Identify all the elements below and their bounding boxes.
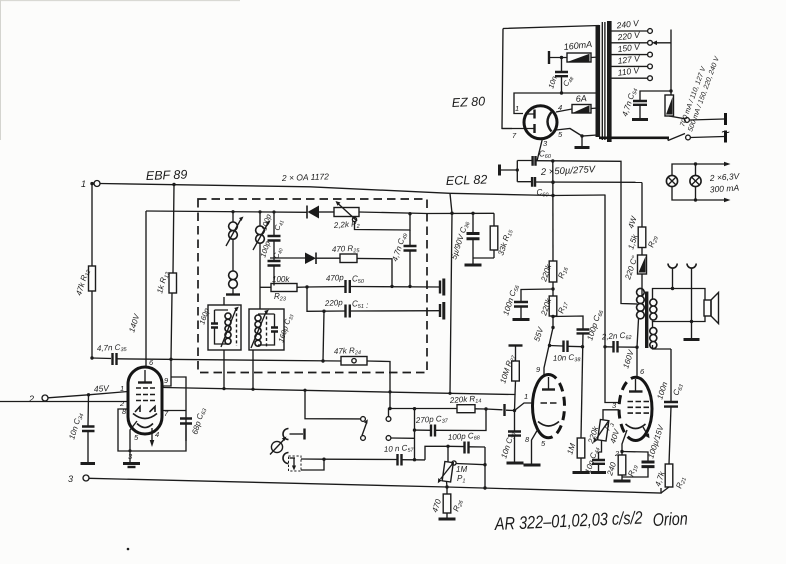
wire to C56 bbox=[521, 289, 553, 301]
ground EBF89 cathode bbox=[123, 462, 140, 465]
ground R19 bbox=[614, 480, 631, 483]
tube ECL82 triode envelope bbox=[533, 375, 549, 438]
EBF89 heater arc bbox=[137, 424, 153, 428]
svg-text:R29: R29 bbox=[646, 235, 660, 250]
ground 1M bbox=[573, 471, 590, 474]
pentode grids bbox=[628, 402, 650, 414]
chassis plate C50 right bbox=[439, 281, 441, 294]
svg-text:2 ×6,3V: 2 ×6,3V bbox=[708, 171, 740, 183]
tuned circuit box B bbox=[249, 309, 284, 389]
EZ80 pin3 wire down bbox=[537, 139, 543, 161]
node B+ lower rail x553 bbox=[551, 181, 554, 184]
wire R13 bottom to EBF89 pin9 bbox=[162, 359, 186, 441]
chassis plate C60 bbox=[498, 165, 501, 176]
capacitor C44 10n bbox=[583, 446, 605, 475]
node P1 bottom on line3 bbox=[445, 485, 448, 488]
node jack wire bbox=[322, 458, 325, 461]
svg-text:4,7n C35: 4,7n C35 bbox=[97, 342, 128, 354]
wire terminal2 to EBF89 grid pin1 bbox=[48, 392, 128, 398]
capacitor 100u/15V electrolytic bbox=[622, 423, 666, 477]
capacitor C66 100p bbox=[577, 308, 606, 438]
wire C50 line bbox=[297, 286, 440, 289]
wire switch left feed bbox=[305, 390, 361, 419]
svg-text:9: 9 bbox=[164, 376, 169, 385]
svg-text:R23: R23 bbox=[274, 292, 287, 303]
svg-text:45V: 45V bbox=[93, 383, 110, 394]
svg-text:68p C63: 68p C63 bbox=[190, 406, 208, 436]
ground C34 bbox=[81, 462, 96, 465]
node C50 left bbox=[305, 285, 308, 288]
wire screen rail x605 bbox=[605, 195, 619, 403]
svg-text:8: 8 bbox=[525, 435, 530, 444]
resistor 1M triode cathode bbox=[565, 438, 584, 471]
svg-text:2: 2 bbox=[28, 394, 34, 404]
svg-text:ECL 82: ECL 82 bbox=[446, 173, 488, 188]
VDR 220C bbox=[623, 254, 646, 296]
svg-text:2: 2 bbox=[614, 449, 620, 458]
EZ80 plates bbox=[533, 110, 535, 134]
wire detector top line to C36 node bbox=[359, 212, 494, 214]
triode cathode arc bbox=[538, 422, 559, 427]
node R12 bottom / C35 line bbox=[90, 356, 93, 359]
mains fuse bbox=[665, 95, 674, 116]
wire C51 line bbox=[307, 287, 440, 311]
svg-text:100n: 100n bbox=[655, 380, 669, 400]
wire C37/C57 vertical bbox=[414, 409, 416, 460]
capacitor C41 100p bbox=[259, 212, 285, 240]
ground R26 bbox=[439, 518, 456, 521]
node grid junction bbox=[513, 409, 516, 412]
triode pin 1 wire bbox=[515, 403, 533, 411]
svg-text:R26: R26 bbox=[451, 498, 465, 513]
triode grid bbox=[541, 402, 557, 404]
resistor R24 47k preset bbox=[334, 346, 367, 365]
capacitor C54 4.7n bbox=[620, 87, 671, 118]
ground C56 bbox=[513, 318, 530, 321]
EBF89 cathode arc bbox=[133, 414, 157, 419]
mains switch pole 1 bbox=[669, 116, 685, 119]
EZ80 pin4 wire to 6A fuse bbox=[556, 109, 572, 112]
capacitor C60a 2x50u electrolytic bbox=[533, 150, 552, 166]
svg-text:Orion: Orion bbox=[652, 508, 688, 530]
node R14 right bbox=[484, 407, 487, 410]
terminal 1 bbox=[81, 179, 100, 189]
diode D1 OA1172 bbox=[307, 206, 334, 219]
node C38 tap bbox=[548, 344, 551, 347]
svg-text:100n C56: 100n C56 bbox=[501, 283, 521, 317]
headphone jack 1 bbox=[668, 264, 677, 269]
svg-text:160mA: 160mA bbox=[563, 39, 592, 52]
wire R14 to C37 bbox=[436, 409, 486, 431]
node slant line top bbox=[450, 212, 453, 215]
svg-text:160p: 160p bbox=[197, 307, 211, 326]
node B+ x553 bbox=[551, 194, 554, 197]
svg-text:10n: 10n bbox=[546, 75, 558, 90]
ground speaker line bbox=[691, 322, 693, 339]
fuse 6A bbox=[572, 93, 598, 113]
resistor R14 220k bbox=[449, 394, 486, 413]
svg-text:7: 7 bbox=[512, 131, 517, 140]
node AVC x450 bbox=[448, 392, 451, 395]
node C49 bottom bbox=[408, 285, 411, 288]
svg-text:5: 5 bbox=[134, 433, 139, 442]
capacitor C38 10n bbox=[550, 341, 583, 365]
wire rail to lamps line y183 bbox=[535, 181, 642, 183]
capacitor C35 4.7n bbox=[97, 342, 128, 365]
svg-text:220 V: 220 V bbox=[616, 29, 642, 42]
node wiper line bbox=[483, 463, 486, 466]
resistor R26 470 bbox=[430, 487, 465, 518]
IF coil L3 small bbox=[229, 271, 238, 294]
wire slantline down to AVC bbox=[450, 194, 452, 394]
capacitor C62 2.2n bbox=[601, 330, 637, 352]
coil box B bbox=[251, 310, 269, 348]
tap terminal circles bbox=[648, 29, 653, 34]
page edge marks bbox=[0, 0, 240, 140]
ground C44 bbox=[591, 471, 606, 474]
wire C68 right down bbox=[484, 447, 486, 488]
svg-text:2,2n C62: 2,2n C62 bbox=[601, 330, 632, 343]
mains cord wires bbox=[690, 119, 725, 138]
wire to triode pin9 bbox=[544, 328, 553, 378]
svg-text:4W: 4W bbox=[626, 214, 639, 230]
svg-text:220k: 220k bbox=[539, 262, 554, 283]
wire step up to C68 line bbox=[425, 446, 448, 460]
wire pin2 line bbox=[0, 401, 128, 403]
dashed shield box bbox=[198, 199, 427, 373]
node AVC x305 bbox=[303, 389, 306, 392]
node switch/R24 bbox=[388, 407, 391, 410]
svg-text:C51 :: C51 : bbox=[352, 300, 368, 311]
ground C39 bbox=[507, 462, 524, 465]
node lamp2 bottom bbox=[694, 198, 697, 201]
ground pin5 bbox=[581, 136, 583, 146]
IF coil L2 bbox=[253, 212, 271, 309]
svg-text:2 ×50µ/275V: 2 ×50µ/275V bbox=[540, 164, 597, 178]
svg-text:EBF 89: EBF 89 bbox=[146, 168, 188, 183]
svg-text:C60: C60 bbox=[539, 150, 552, 161]
wire secondary loop to speaker bbox=[653, 289, 706, 322]
wire switch lower right stub bbox=[391, 437, 415, 439]
capacitor C39 10n grid bbox=[499, 411, 521, 463]
svg-text:4,7n C54: 4,7n C54 bbox=[620, 87, 639, 118]
transformer core gap lines bbox=[602, 22, 605, 140]
svg-text:R21: R21 bbox=[674, 476, 688, 491]
wire B+ top rail to output transformer bbox=[536, 161, 638, 304]
wire B+ rail y193 bbox=[450, 193, 605, 195]
resistor R12 47k bbox=[74, 184, 95, 358]
EBF89 anode bbox=[138, 381, 152, 383]
terminal 2 bbox=[28, 394, 48, 404]
secondary lower winding bbox=[650, 328, 657, 349]
node pin6 / C62 bbox=[635, 346, 638, 349]
pentode pin 3 wire bbox=[603, 410, 619, 420]
capacitor C49 4.7n bbox=[390, 230, 416, 286]
grid stopper plate fuse left bbox=[548, 51, 550, 64]
svg-text:EZ 80: EZ 80 bbox=[451, 94, 485, 110]
node C36 top bbox=[471, 212, 474, 215]
node C54 tap bbox=[669, 89, 672, 92]
ground L3 bbox=[226, 293, 240, 295]
capacitor C40 100p bbox=[258, 240, 284, 286]
node C51/R24 branch bbox=[322, 310, 325, 313]
capacitor C36 5u/90V electrolytic bbox=[449, 213, 479, 261]
wire pin6 up to output transformer bbox=[637, 319, 639, 377]
EZ80 cathode arc bbox=[548, 112, 552, 132]
node cathode bbox=[620, 450, 623, 453]
secondary upper winding bbox=[650, 299, 657, 320]
triode anode bbox=[542, 388, 555, 390]
node AVC x253 bbox=[251, 388, 254, 391]
svg-text:3: 3 bbox=[543, 139, 548, 148]
svg-text:55V: 55V bbox=[532, 326, 545, 343]
capacitor box B 160p C33 bbox=[271, 328, 278, 332]
wire terminal3 chassis line bbox=[89, 478, 661, 493]
fuse 160mA bbox=[563, 39, 599, 62]
pentode anode bbox=[629, 390, 643, 392]
svg-text:47k R24: 47k R24 bbox=[334, 346, 362, 358]
node R12 top bbox=[90, 182, 93, 185]
svg-text:~: ~ bbox=[721, 124, 730, 141]
wire down to R24 line bbox=[323, 311, 324, 361]
svg-text:33k R15: 33k R15 bbox=[496, 227, 515, 257]
capacitor C37 270p bbox=[415, 414, 450, 437]
wire shield box bottom bbox=[118, 409, 186, 451]
potentiometer P3 220k bbox=[586, 419, 617, 452]
svg-text:100p: 100p bbox=[259, 213, 273, 232]
svg-text:1: 1 bbox=[515, 104, 519, 113]
wire lower secondary taps bbox=[653, 322, 672, 350]
node R17 bottom C66 branch bbox=[551, 315, 554, 318]
coil box A bbox=[221, 307, 239, 347]
resistor R29 1.5k 4W bbox=[626, 183, 660, 256]
terminal 3 bbox=[68, 474, 89, 484]
wire C36/R15 bottoms bbox=[473, 258, 494, 264]
svg-text:220p: 220p bbox=[324, 298, 344, 308]
wire terminal1 B+ line bbox=[100, 184, 450, 194]
svg-text:470p: 470p bbox=[326, 273, 345, 283]
tube EBF89 envelope bbox=[128, 367, 162, 434]
wire anode line into box bbox=[146, 211, 307, 212]
node fuse/C48 bbox=[560, 56, 563, 59]
node jack2 bbox=[690, 320, 693, 323]
EBF89 diode plates bbox=[135, 407, 155, 413]
node x485 on line3 bbox=[483, 486, 486, 489]
svg-text:6A: 6A bbox=[575, 93, 587, 104]
chassis bar transformer bottom bbox=[599, 137, 669, 140]
node jack1 bbox=[671, 287, 674, 290]
svg-text:C63: C63 bbox=[671, 382, 685, 397]
pentode cathode arc + arrow bbox=[626, 424, 646, 429]
ground C36 bbox=[465, 264, 482, 267]
svg-text:P1: P1 bbox=[457, 474, 465, 485]
ground triode cathode bbox=[524, 464, 541, 467]
node R16/R17 junction bbox=[551, 287, 554, 290]
svg-text:300 mA: 300 mA bbox=[709, 182, 739, 194]
svg-text:1M: 1M bbox=[565, 442, 577, 456]
voltage selector arrow bbox=[656, 30, 671, 96]
node C57 line bbox=[413, 458, 416, 461]
svg-text:10M R27: 10M R27 bbox=[498, 353, 517, 385]
capacitor C57 10n bbox=[324, 443, 425, 466]
capacitor C63 100n feedback bbox=[655, 349, 685, 464]
svg-text:150 V: 150 V bbox=[617, 41, 642, 54]
svg-text:R16: R16 bbox=[556, 265, 570, 280]
wire P2 wiper loop bbox=[355, 214, 411, 230]
node C38 right on C66 line bbox=[581, 345, 584, 348]
svg-text:240: 240 bbox=[605, 461, 618, 478]
svg-text:10n C38: 10n C38 bbox=[553, 353, 582, 365]
transformer core right bar bbox=[607, 21, 612, 142]
stray dot bottom left bbox=[127, 548, 130, 551]
node C35 right / R13 bottom bbox=[169, 358, 172, 361]
svg-text:6: 6 bbox=[640, 367, 645, 376]
wire C34 branch bbox=[87, 395, 90, 462]
svg-text:160V: 160V bbox=[621, 348, 636, 369]
svg-text:1: 1 bbox=[81, 179, 86, 189]
node P2/C49 bbox=[408, 212, 411, 215]
svg-text:240 V: 240 V bbox=[615, 18, 641, 31]
node C62 tap bbox=[603, 345, 606, 348]
wire C35 line to R24 bbox=[92, 358, 390, 408]
EZ80 pin5 wire bbox=[556, 129, 597, 137]
capacitor C48 10n bbox=[546, 58, 575, 94]
pilot lamp 2 bbox=[690, 175, 701, 186]
pentode pin 2 cathode wire bbox=[622, 430, 627, 455]
jack lower bbox=[283, 453, 295, 464]
resistor R27 10M bbox=[498, 346, 522, 395]
node on terminal2 wire bbox=[87, 393, 90, 396]
shielded connector box bbox=[289, 456, 302, 471]
capacitor C51 220p bbox=[324, 298, 369, 317]
capacitor C50 470p bbox=[326, 273, 365, 293]
wire rectifier outer box bbox=[502, 26, 599, 129]
svg-text:2 × OA 1172: 2 × OA 1172 bbox=[281, 171, 330, 183]
resistor R23 100k bbox=[260, 275, 297, 303]
wire P1 bottom bbox=[446, 482, 449, 488]
tuned circuit box A bbox=[208, 297, 241, 389]
svg-text:127 V: 127 V bbox=[617, 53, 642, 66]
ground C54 bbox=[632, 118, 648, 121]
capacitor C60b electrolytic bbox=[532, 177, 549, 199]
capacitor C34 10n bbox=[67, 412, 94, 441]
svg-text:5: 5 bbox=[541, 439, 546, 448]
transformer core left bar bbox=[596, 25, 601, 137]
EBF89 pin4 heater arrow bbox=[151, 428, 153, 441]
node x553 on y183 bbox=[551, 181, 554, 184]
chassis plate C51 right bbox=[439, 304, 441, 317]
node R13 top bbox=[172, 183, 175, 186]
svg-text:3: 3 bbox=[68, 474, 73, 484]
resistor R13 1k bbox=[155, 185, 176, 360]
potentiometer P1 1M bbox=[438, 446, 485, 484]
svg-text:C50: C50 bbox=[352, 275, 365, 286]
resistor R25 470 bbox=[332, 244, 392, 287]
node R24 line bbox=[321, 359, 324, 362]
svg-text:AR 322–01,02,03 c/s/2: AR 322–01,02,03 c/s/2 bbox=[493, 508, 643, 534]
wire R17 bottom to C66 bbox=[553, 316, 583, 329]
grid stopper plate bbox=[486, 408, 503, 411]
svg-text:9: 9 bbox=[536, 365, 541, 374]
node C68 left / P1 top bbox=[446, 445, 449, 448]
svg-text:1: 1 bbox=[524, 392, 528, 401]
node C37 branch top bbox=[413, 407, 416, 410]
svg-text:1M: 1M bbox=[456, 465, 467, 474]
node AVC x390 bbox=[388, 390, 391, 393]
svg-text:110 V: 110 V bbox=[617, 65, 641, 78]
node 55V / pin9 bbox=[551, 326, 554, 329]
svg-text:4: 4 bbox=[155, 430, 159, 439]
EBF89 pin 6 anode wire up bbox=[145, 211, 147, 367]
output transformer core bbox=[645, 292, 648, 349]
wire switch line y408 bbox=[389, 409, 458, 417]
switch contacts tone bbox=[361, 417, 391, 441]
node B+ upper rail x553 bbox=[551, 159, 554, 162]
svg-text:220k: 220k bbox=[539, 296, 554, 317]
capacitor box A 160p bbox=[211, 324, 218, 328]
speaker bbox=[704, 293, 719, 324]
output transformer primary winding bbox=[637, 288, 645, 318]
jack upper bbox=[283, 429, 305, 440]
resistor R19 240 bbox=[605, 455, 640, 480]
lamp bottom wire bbox=[672, 187, 725, 200]
pilot lamp 1 bbox=[666, 175, 677, 186]
svg-text:100k: 100k bbox=[272, 275, 290, 284]
resistor R15 33k bbox=[490, 213, 515, 258]
capacitor C56 100n bbox=[501, 283, 528, 318]
headphone jack 2 bbox=[687, 264, 696, 269]
resistor R16 220k bbox=[539, 161, 570, 296]
node pin5 ground bbox=[580, 134, 583, 137]
node lamp2 top bbox=[694, 162, 697, 165]
triode pin 8 wire to ground bbox=[532, 429, 539, 464]
wire jack to C57 bbox=[301, 459, 324, 470]
potentiometer P2 2.2k bbox=[333, 201, 360, 232]
EBF89 pin5 cathode wire bbox=[130, 421, 137, 451]
mains plug bars bbox=[724, 113, 727, 143]
lamp top wire bbox=[672, 164, 725, 175]
wire rectifier inner loop bbox=[514, 93, 597, 114]
svg-text:140V: 140V bbox=[127, 312, 141, 333]
mains switch pole 2 bbox=[668, 134, 685, 141]
svg-text:4,7n C49: 4,7n C49 bbox=[390, 232, 409, 263]
EZ80 pin7 wire bbox=[502, 128, 524, 130]
svg-text:10 n C57: 10 n C57 bbox=[384, 443, 415, 456]
wire AVC junction to R27 bottom bbox=[450, 393, 515, 410]
svg-text:R17: R17 bbox=[556, 300, 570, 315]
node C37 left bbox=[413, 428, 416, 431]
svg-text:1: 1 bbox=[120, 384, 124, 393]
primary tap wires bbox=[611, 31, 648, 78]
svg-text:C60: C60 bbox=[537, 188, 550, 199]
tube EZ80 bbox=[524, 106, 557, 139]
wire pin7 to shield bbox=[162, 410, 186, 412]
svg-text:47k R12: 47k R12 bbox=[74, 268, 92, 297]
svg-text:R19: R19 bbox=[626, 464, 640, 479]
node coil taps on anode line bbox=[231, 210, 234, 213]
svg-text:160p C33: 160p C33 bbox=[276, 312, 295, 344]
phono pickup symbol bbox=[270, 437, 287, 455]
EBF89 grids bbox=[136, 388, 155, 401]
svg-text:5: 5 bbox=[558, 130, 563, 139]
node R25 bottom bbox=[390, 285, 393, 288]
IF coil L1 bbox=[226, 212, 244, 271]
diode D2 OA1172 bbox=[270, 253, 340, 265]
svg-text:3: 3 bbox=[128, 452, 133, 461]
wire C60 common bbox=[501, 161, 533, 182]
resistor R21 4.7k bbox=[653, 464, 688, 493]
node AVC x224 bbox=[222, 387, 225, 390]
